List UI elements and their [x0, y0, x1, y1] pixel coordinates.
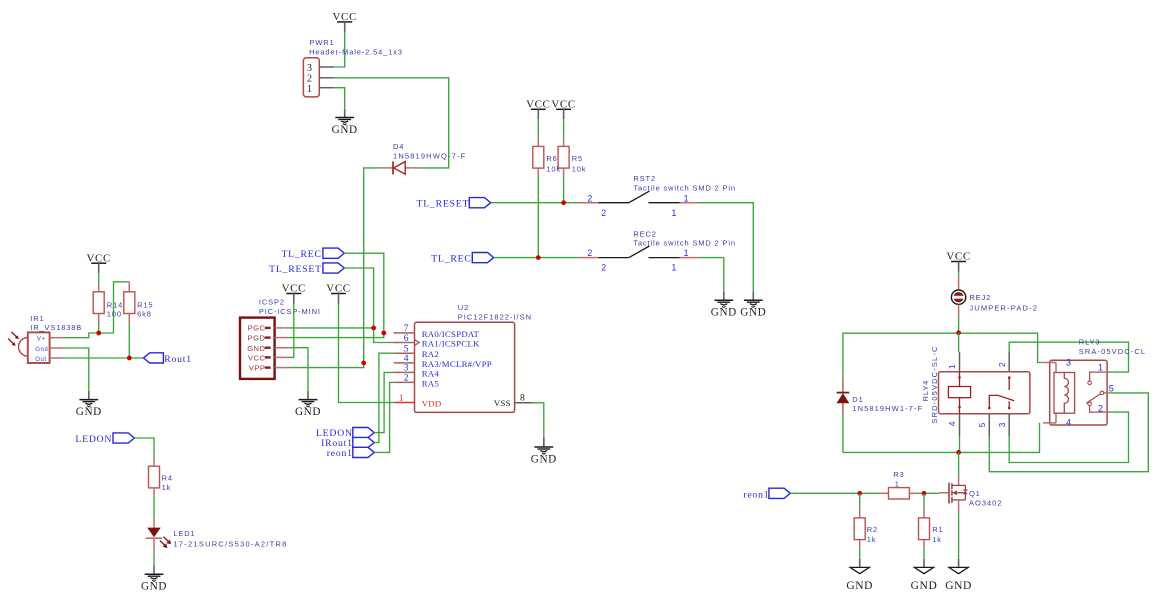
svg-text:5: 5 [978, 422, 987, 427]
svg-text:3: 3 [998, 422, 1007, 427]
wire source to GND [958, 512, 960, 559]
junction R15/Out [127, 356, 132, 361]
junction drain rail [956, 450, 961, 455]
svg-text:6: 6 [404, 334, 409, 344]
resistor R2 [854, 518, 865, 540]
pin 4 of RLY4 [948, 414, 960, 436]
pin lead REJ2 top [958, 276, 960, 290]
svg-text:RLY4: RLY4 [921, 380, 930, 402]
wire RLY4 pin3 to RLY3 pin2 [1009, 412, 1128, 462]
net flag reon1 (gate) [769, 488, 790, 498]
wire VSS to GND [533, 403, 544, 438]
junction R14/V+ [96, 331, 101, 336]
power flag VCC (PWR1) [332, 11, 356, 32]
net flag IRout1 [353, 437, 374, 447]
ground GND (LED1) [141, 566, 167, 593]
wire RLY4 pin2 to RLY3 pin1 [1009, 342, 1128, 372]
svg-text:2: 2 [587, 193, 592, 203]
pin 3 of RLY3 [1043, 358, 1071, 373]
net flag TL_RESET (ICSP) [323, 263, 344, 273]
wire relay VCC rail [843, 333, 1043, 452]
junction PGC/TL_RESET [371, 326, 376, 331]
svg-text:RST2: RST2 [633, 174, 656, 183]
svg-text:3: 3 [1066, 358, 1071, 368]
wire R1 to GND [923, 548, 925, 559]
wire LEDON to RA4 [374, 372, 393, 432]
ground GND (R1) [911, 559, 938, 592]
pin 3 of PWR1 [319, 66, 334, 68]
svg-text:1: 1 [684, 193, 689, 203]
svg-text:2: 2 [601, 263, 606, 273]
resistor R3 [889, 488, 910, 499]
svg-text:3: 3 [307, 63, 312, 74]
pin 7 RA0 of U2 [394, 324, 415, 334]
diode D4 [379, 161, 419, 174]
power flag VCC (VDD) [326, 283, 350, 304]
pin lead R15 top [128, 282, 130, 292]
wire D4 anode to RA3 net [364, 168, 379, 363]
svg-text:D4: D4 [393, 142, 404, 151]
diode D1 [836, 378, 849, 417]
svg-text:1N5819HW1-7-F: 1N5819HW1-7-F [852, 404, 923, 413]
svg-text:Out: Out [35, 357, 46, 363]
svg-text:R15: R15 [137, 301, 153, 310]
svg-text:GND: GND [76, 406, 102, 418]
svg-text:R14: R14 [107, 301, 123, 310]
pin 1 of PWR1 [319, 87, 334, 89]
pin 4 RA3 of U2 [394, 354, 415, 364]
wire VCC to R14 [98, 273, 100, 285]
pin PGC of ICSP2 [275, 327, 290, 329]
svg-text:RA3/MCLR#/VPP: RA3/MCLR#/VPP [422, 359, 492, 369]
relay RLY3 coil [1054, 373, 1075, 414]
pin VPP of ICSP2 [275, 367, 290, 369]
wire rail down to RLY4 pin1 [958, 333, 960, 352]
wire PWR1 pin 2 to D4 [334, 78, 449, 168]
pin 1 VDD of U2 [395, 394, 415, 404]
net flag reon1 (U2) [353, 447, 374, 457]
pin 2 of PWR1 [319, 77, 334, 79]
svg-text:3: 3 [404, 364, 409, 374]
svg-text:TL_RESET: TL_RESET [417, 199, 470, 210]
svg-text:PGC: PGC [248, 324, 266, 333]
svg-text:GND: GND [247, 344, 265, 353]
wire ICSP GND down [290, 348, 309, 391]
wire PGD net [290, 333, 384, 338]
wire TL_RESET to RA1 pin [344, 268, 393, 343]
resistor R15 [124, 292, 135, 314]
svg-text:1: 1 [948, 364, 957, 369]
jumper pad REJ2 [951, 290, 965, 304]
svg-text:R6: R6 [546, 154, 557, 163]
svg-text:2: 2 [601, 208, 606, 218]
pin lead R6 top [537, 139, 539, 147]
svg-text:1: 1 [307, 84, 312, 95]
relay RLY4 coil [948, 372, 970, 414]
svg-text:REC2: REC2 [633, 229, 656, 238]
svg-text:GND: GND [740, 307, 766, 319]
wire R1 branch [923, 493, 925, 509]
wire R6 to TL_REC net [537, 178, 539, 258]
wire Gnd of IR1 to GND [64, 348, 89, 391]
junction VCC rail [956, 330, 961, 335]
svg-text:1N5819HWQ-7-F: 1N5819HWQ-7-F [393, 151, 466, 160]
junction R2 top [857, 491, 862, 496]
switch RST2 [579, 191, 699, 218]
wire PGC net [290, 327, 374, 329]
wire R2 branch [859, 493, 861, 509]
svg-text:PWR1: PWR1 [310, 38, 335, 47]
pin VCC of ICSP2 [275, 356, 290, 358]
pin lead R3 left [879, 492, 889, 494]
switch REC2 [579, 246, 699, 273]
svg-text:AO3402: AO3402 [969, 498, 1003, 507]
connector ICSP2 body [240, 318, 275, 379]
pin lead R1 top [923, 509, 925, 518]
resistor R4 [149, 466, 160, 488]
pin 3 RA4 of U2 [394, 364, 415, 374]
power flag VCC (relay) [946, 251, 970, 272]
wire REJ2 to relay rail [958, 318, 960, 333]
pin 3 of RLY4 [998, 414, 1009, 436]
svg-text:R5: R5 [572, 154, 583, 163]
wire TL_REC to RA0 pin [344, 253, 384, 333]
svg-text:PIC-ICSP-MINI: PIC-ICSP-MINI [259, 307, 321, 316]
power flag VCC (R5) [551, 99, 575, 120]
wire RLY4 pin4 to drain rail [959, 436, 961, 452]
pin Out of IR1 [50, 357, 64, 359]
pin 5 RA2 of U2 [394, 345, 415, 355]
pin 2 of RLY4 [998, 352, 1009, 372]
svg-text:R3: R3 [893, 470, 904, 479]
svg-text:GND: GND [711, 307, 737, 319]
svg-text:GND: GND [911, 580, 938, 592]
svg-text:2: 2 [587, 248, 592, 258]
svg-text:RA1/ICSPCLK: RA1/ICSPCLK [422, 339, 480, 349]
pin 1 of RLY4 [948, 352, 960, 372]
ground GND (RST2) [740, 292, 766, 319]
wire reon1 to R3 [790, 492, 879, 494]
power flag VCC (ICSP2) [282, 283, 306, 304]
svg-text:1: 1 [672, 263, 677, 273]
svg-text:GND: GND [295, 406, 321, 418]
pin 6 RA1 of U2 [394, 334, 415, 344]
pin lead R14 bottom [98, 314, 100, 323]
pin lead R15 bottom [128, 314, 130, 324]
pin lead R2 top [859, 509, 861, 518]
net flag TL_REC (ICSP) [323, 248, 344, 258]
svg-text:U2: U2 [458, 303, 469, 312]
wire reon1 to RA5 [374, 382, 393, 452]
wire drain to Q1 [958, 452, 960, 474]
relay RLY4 contact [988, 376, 1014, 409]
svg-text:VPP: VPP [249, 363, 266, 372]
pin lead R1 bottom [923, 540, 925, 548]
svg-text:D1: D1 [852, 395, 863, 404]
junction VPP/D4 [361, 361, 366, 366]
ground GND (ICSP2) [295, 391, 321, 418]
pin lead Q1 drain [958, 474, 960, 485]
wire Out net to Rout1 [64, 357, 144, 359]
wire VCC to R5 [563, 119, 565, 139]
pin PGD of ICSP2 [275, 337, 290, 339]
svg-text:JUMPER-PAD-2: JUMPER-PAD-2 [969, 303, 1038, 312]
svg-text:1: 1 [1098, 363, 1103, 373]
pin lead REJ2 bottom [958, 305, 960, 318]
net flag Rout1 [144, 353, 164, 363]
resistor R1 [919, 518, 930, 540]
junction R1 top [922, 491, 927, 496]
wire drain rail [843, 423, 1040, 453]
svg-text:R1: R1 [932, 525, 943, 534]
junction PGD/TL_REC [381, 331, 386, 336]
pin lead R3 right [909, 492, 920, 494]
pin lead R2 bottom [859, 540, 861, 548]
relay RLY3 body [1050, 360, 1107, 425]
wire VCC to VDD pin [339, 304, 395, 403]
wire V+ net [64, 333, 114, 338]
IR receiver IR1 body [18, 332, 49, 363]
wire R5 to TL_RESET net [563, 178, 565, 203]
pin 4 of RLY3 [1043, 413, 1071, 427]
svg-text:4: 4 [1066, 418, 1071, 428]
wire REC2 to GND [699, 258, 724, 292]
svg-text:Header-Male-2.54_1x3: Header-Male-2.54_1x3 [309, 47, 403, 56]
svg-text:2: 2 [998, 362, 1007, 367]
pin lead R5 top [563, 139, 565, 147]
ground GND (REC2) [711, 292, 737, 319]
connector PWR1 body [303, 58, 319, 97]
svg-text:IR1: IR1 [30, 314, 44, 323]
wire PWR1 pin 1 to GND [334, 88, 345, 109]
resistor R6 [533, 146, 544, 168]
svg-text:4: 4 [404, 354, 409, 364]
ground GND (IR1) [76, 391, 102, 418]
svg-text:1: 1 [684, 248, 689, 258]
wire ICSP VCC up [290, 304, 294, 358]
svg-text:SRA-05VDC-CL: SRA-05VDC-CL [1079, 347, 1146, 356]
wire TL_REC to REC2 [494, 257, 579, 259]
wire VCC to REJ2 [958, 272, 960, 277]
pin GND of ICSP2 [275, 347, 290, 349]
svg-text:10k: 10k [546, 164, 561, 173]
pin 1 of RLY3 [1088, 363, 1111, 385]
svg-text:PGD: PGD [248, 334, 266, 343]
svg-text:Q1: Q1 [969, 489, 981, 498]
junction R6/TL_REC [536, 255, 541, 260]
svg-text:5: 5 [1109, 384, 1114, 394]
ground GND (VSS) [531, 438, 557, 465]
svg-text:reon1: reon1 [743, 490, 769, 501]
wire RST2 to GND [699, 203, 754, 292]
svg-text:2: 2 [307, 74, 312, 85]
svg-text:1k: 1k [932, 535, 942, 544]
pin V+ of IR1 [50, 337, 64, 339]
svg-text:1k: 1k [162, 483, 172, 492]
svg-text:R4: R4 [162, 474, 173, 483]
ground GND (Q1) [945, 559, 972, 592]
svg-text:GND: GND [332, 124, 358, 136]
svg-text:TL_REC: TL_REC [281, 249, 321, 260]
svg-text:LEDON: LEDON [75, 434, 112, 445]
svg-text:RA0/ICSPDAT: RA0/ICSPDAT [422, 329, 480, 339]
svg-text:TL_REC: TL_REC [431, 253, 471, 264]
wire RLY4 pin5 to RLY3 pin5 [989, 393, 1148, 472]
svg-text:IR_VS1838B: IR_VS1838B [30, 323, 82, 332]
svg-text:6k8: 6k8 [137, 310, 152, 319]
svg-text:1k: 1k [867, 535, 877, 544]
svg-text:RA4: RA4 [422, 368, 440, 378]
relay RLY4 body [939, 372, 1030, 414]
net flag LEDON (U2) [353, 428, 374, 438]
svg-text:4: 4 [948, 421, 957, 426]
pin 5 of RLY4 [978, 414, 989, 436]
net flag TL_REC (switch) [472, 253, 493, 263]
svg-text:17-21SURC/S530-A2/TR8: 17-21SURC/S530-A2/TR8 [173, 539, 287, 548]
svg-text:GND: GND [531, 453, 557, 465]
wire R2 to GND [859, 548, 861, 559]
wire VPP net [290, 363, 364, 368]
svg-text:GND: GND [141, 581, 167, 593]
svg-text:PIC12F1822-I/SN: PIC12F1822-I/SN [458, 313, 532, 322]
svg-text:REJ2: REJ2 [969, 293, 991, 302]
wire R15 to Out net [128, 324, 130, 358]
svg-text:GND: GND [945, 580, 972, 592]
net flag TL_RESET [469, 198, 490, 208]
svg-text:ICSP2: ICSP2 [259, 298, 285, 307]
pin lead R4 bottom [153, 488, 155, 496]
svg-text:1: 1 [895, 479, 900, 488]
svg-text:RA2: RA2 [422, 349, 439, 359]
svg-text:5: 5 [404, 345, 409, 355]
resistor R5 [558, 146, 569, 168]
pin lead R6 bottom [537, 168, 539, 177]
wire R3 to gate [921, 492, 939, 494]
IC U2 body [415, 322, 515, 412]
LED LED1 [146, 519, 172, 552]
stem VSS gnd [543, 437, 545, 447]
pin lead Q1 source [958, 500, 960, 512]
svg-text:GND: GND [846, 580, 873, 592]
svg-text:2: 2 [1098, 403, 1103, 413]
pin lead R14 top [98, 285, 100, 291]
wire IRout1 to RA2 [374, 353, 393, 442]
wire R15 top link [114, 282, 130, 333]
IR arrows IR1 [8, 332, 19, 346]
svg-text:VDD: VDD [422, 399, 442, 409]
wire R14 to V+ node [98, 323, 100, 333]
net flag LEDON (left) [113, 433, 134, 443]
wire R4 to LED1 [153, 496, 155, 519]
svg-text:100: 100 [107, 310, 122, 319]
pin lead Q1 gate [939, 492, 948, 494]
svg-text:reon1: reon1 [327, 448, 353, 459]
svg-text:7: 7 [404, 324, 409, 334]
wire VCC to R6 [537, 119, 539, 139]
power flag VCC (R6) [526, 99, 550, 120]
svg-text:8: 8 [520, 394, 525, 404]
svg-text:V+: V+ [37, 336, 46, 342]
svg-text:TL_RESET: TL_RESET [269, 264, 322, 275]
svg-text:Rout1: Rout1 [164, 354, 192, 365]
pin 2 RA5 of U2 [394, 374, 415, 384]
svg-text:RA5: RA5 [422, 378, 440, 388]
svg-text:1: 1 [672, 208, 677, 218]
pin 8 VSS of U2 [515, 394, 534, 404]
svg-text:R2: R2 [867, 525, 878, 534]
svg-text:VSS: VSS [494, 398, 511, 408]
wire VCC to PWR1 pin 3 [334, 32, 345, 67]
pin 2 of RLY3 [1088, 402, 1111, 413]
svg-text:VCC: VCC [248, 353, 265, 362]
svg-text:2: 2 [404, 374, 409, 384]
ground GND (R2) [846, 559, 873, 592]
pin lead R4 top [153, 459, 155, 467]
wire TL_RESET to RST2 [491, 202, 579, 204]
svg-text:Gnd: Gnd [35, 347, 48, 353]
svg-text:10k: 10k [572, 164, 587, 173]
svg-text:LED1: LED1 [173, 529, 195, 538]
pin 5 of RLY3 [1086, 384, 1114, 404]
junction R5/TL_RESET [561, 200, 566, 205]
wire LED1 to GND [153, 552, 155, 566]
wire LEDON to R4 [135, 438, 155, 459]
resistor R14 [93, 292, 104, 314]
pin lead R5 bottom [563, 168, 565, 177]
svg-text:RLY3: RLY3 [1079, 337, 1101, 346]
ground GND (PWR1) [332, 109, 358, 136]
svg-text:1: 1 [399, 394, 404, 404]
power flag VCC (IR1) [86, 252, 110, 273]
transistor Q1 [949, 483, 968, 504]
pin Gnd of IR1 [50, 347, 64, 349]
